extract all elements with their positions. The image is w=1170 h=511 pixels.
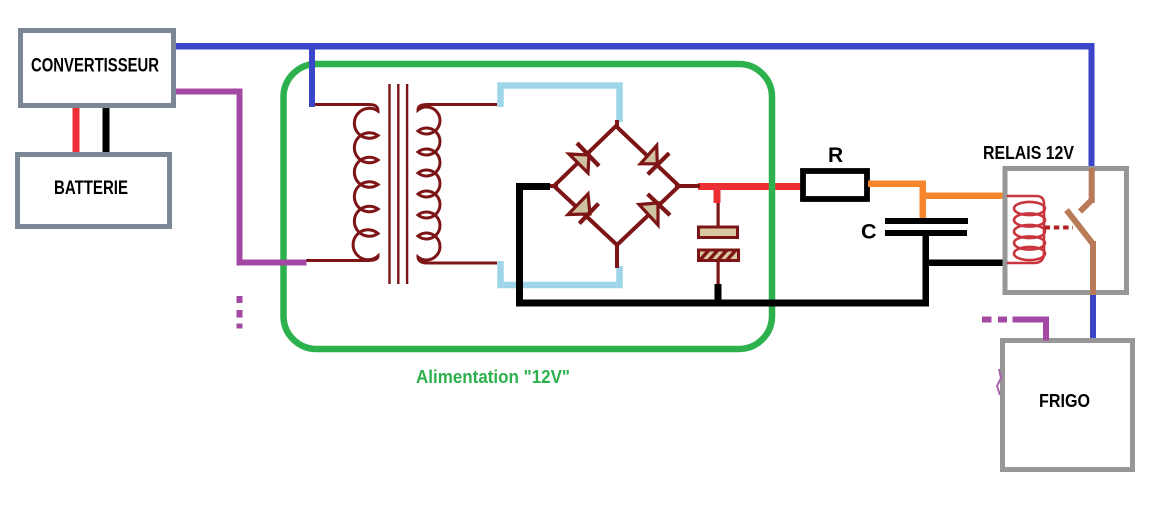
wire orange resistor to node (868, 181, 926, 188)
relay switch fixed contact (brown) (1080, 168, 1095, 212)
transformer T1 secondary winding (418, 105, 497, 264)
diode D4 (bottom-right) (639, 194, 670, 225)
wire dark red filter component bottom lead (717, 262, 720, 284)
wire purple converter output horizontal (176, 89, 242, 95)
label Alimentation "12V" (416, 366, 570, 387)
wire black bottom rail (516, 300, 927, 307)
stray purple mark on frigo edge (997, 369, 1001, 395)
box RELAIS 12V (1005, 169, 1127, 293)
relay actuation dashed link (1045, 226, 1074, 230)
capacitor C top plate (885, 218, 968, 224)
label R (828, 144, 843, 167)
wire black bridge left vertical (516, 183, 523, 307)
wire light blue bottom bracket (secondary to bridge AC bottom) (501, 261, 620, 285)
wire purple to transformer primary (237, 260, 307, 266)
svg-text:Alimentation "12V": Alimentation "12V" (416, 366, 570, 387)
power supply enclosure (green rounded box) (284, 64, 773, 349)
box FRIGO (1003, 341, 1133, 470)
wire orange node down to capacitor (920, 181, 927, 219)
diode D3 (bottom-left) (568, 194, 599, 224)
wire light blue top bracket (secondary to bridge AC top) (501, 86, 620, 123)
svg-text:FRIGO: FRIGO (1039, 390, 1090, 411)
diode D1 (top-left) (569, 143, 599, 173)
svg-text:CONVERTISSEUR: CONVERTISSEUR (31, 56, 159, 77)
svg-text:RELAIS 12V: RELAIS 12V (983, 142, 1075, 163)
relay coil K1 (1007, 196, 1045, 263)
wire purple vertical drop (237, 89, 243, 266)
wire red tee down to filter component (714, 188, 721, 203)
resistor R1 body (803, 171, 867, 199)
wire blue drop to transformer primary (309, 43, 315, 107)
wire black rail to relay coil (926, 260, 1006, 267)
box CONVERTISSEUR (21, 31, 174, 106)
diode D2 (top-right) (640, 145, 669, 174)
wire black bridge minus node horizontal (516, 183, 550, 190)
wire blue top rail (176, 43, 1094, 50)
svg-text:C: C (861, 220, 877, 244)
diode bridge diamond wires (544, 120, 700, 268)
wire blue relay to frigo (1090, 293, 1096, 340)
wire black capacitor to rail vertical (923, 234, 930, 307)
svg-text:R: R (828, 144, 843, 167)
wire black converter to battery (103, 104, 110, 153)
wire red converter to battery (73, 104, 80, 153)
filter component bottom bar (hatched) (699, 250, 739, 261)
wire red output of bridge to resistor R (698, 183, 801, 190)
wire orange node to relay coil (920, 193, 1007, 200)
label RELAIS 12V (983, 142, 1075, 163)
wire blue drop to relay top (1089, 43, 1095, 168)
wire black varistor to rail vertical (715, 284, 722, 306)
transformer T1 primary winding (306, 105, 378, 261)
relay switch arm (brown) (1067, 210, 1097, 295)
wire purple dashed continuation (237, 296, 243, 329)
transformer T1 core (388, 84, 408, 284)
svg-text:BATTERIE: BATTERIE (54, 178, 128, 199)
filter component top bar (699, 227, 738, 238)
wire purple dashed to frigo (982, 317, 1049, 341)
label C (861, 220, 877, 244)
capacitor C bottom plate (885, 230, 967, 236)
box BATTERIE (18, 155, 170, 227)
wire dark red filter component top lead (717, 203, 720, 226)
